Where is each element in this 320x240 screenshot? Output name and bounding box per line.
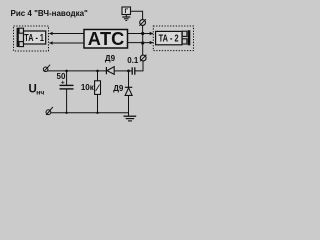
handset of TA-1 [17,28,24,47]
terminal clamp X2 [140,55,147,62]
wire clamp to upper line wire [142,25,144,33]
telephone TA-1 enclosure (dashed) [14,26,49,51]
node capacitor 50 bottom [65,112,67,114]
svg-text:АТС: АТС [88,29,125,49]
svg-text:нч: нч [36,89,44,96]
ground (bottom of detector) [124,116,137,121]
telephone TA-2 enclosure (dashed) [153,26,193,51]
wire clamp X2 down to detector [135,61,143,71]
svg-text:Д9: Д9 [105,54,116,63]
diode D9 (vertical) [125,71,132,116]
wire TA-1 to ATC (lower) with arrow into TA-1 [49,42,84,44]
box TA-2 [156,31,182,44]
box TA-1 [24,31,46,44]
node top of diode VD2 [127,70,130,73]
wire diode to node [114,70,128,72]
svg-text:ТА - 1: ТА - 1 [24,33,44,44]
svg-text:+: + [61,79,65,86]
capacitor 0.1 [132,67,135,74]
node junction on lower wire [141,41,144,44]
handset of TA-2 [182,30,190,45]
diode D9 (horizontal) [106,67,114,75]
wire between line wires [142,34,144,44]
node resistor top [96,70,99,73]
block ATC (exchange) [84,30,128,49]
ground under generator [122,15,130,21]
capacitor 50 (electrolytic) [60,71,74,113]
node capacitor 50 top [65,70,68,73]
wire top rail left section [47,70,106,72]
resistor 10k [95,71,101,113]
generator G [122,7,131,15]
terminal clamp X1 [139,19,146,26]
svg-text:Рис 4 "ВЧ-наводка": Рис 4 "ВЧ-наводка" [11,9,89,18]
terminal input lower [46,107,53,115]
wire generator output [131,11,143,19]
svg-text:ТА - 2: ТА - 2 [159,33,179,44]
svg-text:0.1: 0.1 [127,56,139,65]
wire TA-1 to ATC (upper) with arrow into TA-1 [49,33,84,35]
node junction on upper wire [141,32,144,35]
wire ATC to TA-2 (lower) with arrow into TA-2 [128,42,153,44]
svg-text:Г: Г [124,8,128,15]
terminal input upper [43,65,50,72]
svg-text:10к: 10к [81,83,95,92]
wire lower line to clamp X2 [142,43,144,55]
node resistor bottom [96,112,98,114]
wire cap to diode node [129,70,133,72]
wire bottom rail [51,112,129,114]
wire ATC to TA-2 (upper) with arrow into TA-2 [128,33,153,35]
svg-text:Д9: Д9 [113,84,124,93]
